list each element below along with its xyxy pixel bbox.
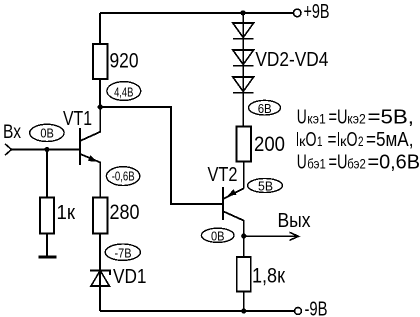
note Ik01=Ik02=5mA [296, 129, 414, 151]
svg-text:1,8к: 1,8к [252, 264, 285, 288]
svg-text:-9В: -9В [305, 299, 328, 317]
svg-text:280: 280 [110, 200, 140, 224]
wire output arrow [244, 235, 298, 237]
resistor R1 920 [93, 44, 108, 79]
value 1k [57, 201, 76, 224]
svg-text:-0,6В: -0,6В [112, 169, 135, 184]
svg-text:VD2-VD4: VD2-VD4 [255, 49, 328, 71]
value 1,8k [252, 264, 285, 288]
label +9V [304, 1, 330, 23]
label VD2-VD4 [255, 49, 328, 71]
svg-text:0В: 0В [40, 126, 54, 141]
label Vx input [3, 122, 21, 143]
svg-text:IкО1=IкО2=5мА,: IкО1=IкО2=5мА, [296, 129, 414, 151]
wire 200 to VT2 emitter [243, 162, 245, 189]
label -9V [305, 299, 328, 317]
resistor R4 200 [237, 127, 252, 162]
label VT2 [208, 164, 238, 186]
terminal -9V circle [295, 308, 302, 315]
svg-text:920: 920 [110, 48, 139, 72]
node label 4,4V ellipse [107, 82, 141, 101]
value 200 [254, 132, 285, 156]
label VT1 [63, 108, 92, 130]
svg-text:0В: 0В [211, 229, 225, 244]
wire base node down [46, 150, 48, 198]
node collector VT1 (4,4V) [98, 104, 103, 109]
wire VT1 base lead [12, 149, 80, 151]
ground [39, 256, 57, 259]
resistor R5 1.8k [237, 257, 251, 292]
wire 1k to ground [46, 234, 48, 257]
svg-text:Uкэ1=Uкэ2=5В,: Uкэ1=Uкэ2=5В, [297, 107, 414, 129]
wire node to VT2 base [100, 107, 222, 204]
node label -7V ellipse [105, 244, 140, 261]
label VD1 [113, 266, 147, 288]
wire 1.8k to rail [243, 292, 245, 312]
wire 280 to VD1 [99, 234, 101, 271]
svg-text:Вых: Вых [278, 210, 311, 232]
wire diode chain top [242, 13, 244, 127]
svg-text:-7В: -7В [115, 246, 132, 261]
transistor VT2 [223, 187, 244, 236]
node label 5V ellipse [248, 179, 283, 194]
svg-text:VT1: VT1 [63, 108, 92, 130]
node label 0V ellipse (collector VT2) [201, 228, 234, 243]
resistor R2 1k [40, 198, 54, 234]
svg-text:VD1: VD1 [113, 266, 147, 288]
svg-text:6В: 6В [258, 101, 272, 116]
terminal +9V circle [293, 9, 301, 17]
node label 6V ellipse [249, 100, 281, 115]
input arrow Vx [5, 144, 12, 155]
wire top rail +9V [100, 12, 293, 14]
svg-text:200: 200 [254, 132, 285, 156]
value 280 [110, 200, 140, 224]
svg-text:4,4В: 4,4В [114, 85, 133, 100]
node collector VT2 (0V) [241, 233, 246, 238]
node top junction [240, 10, 245, 15]
wire bottom rail -9V [100, 310, 294, 312]
node label -0,6V ellipse [106, 167, 139, 186]
note Uke1=Uke2=5V [297, 107, 414, 129]
svg-text:1к: 1к [57, 201, 76, 224]
node label 0V ellipse (base VT1) [30, 124, 64, 141]
svg-text:Uбэ1=Uбэ2=0,6В: Uбэ1=Uбэ2=0,6В [297, 152, 420, 174]
node bottom junction [241, 308, 246, 313]
diode VD3 [233, 50, 254, 66]
diode VD2 [233, 23, 254, 39]
svg-text:+9В: +9В [304, 1, 330, 23]
svg-text:5В: 5В [258, 179, 273, 194]
svg-text:Вх: Вх [3, 122, 21, 143]
label Vyh output [278, 210, 311, 232]
svg-text:VT2: VT2 [208, 164, 238, 186]
wire 920 top lead [99, 13, 101, 44]
zener diode VD1 [90, 271, 110, 312]
wire VT2 collector to 1.8k [243, 236, 245, 257]
wire VT1 emitter to 280 [99, 163, 101, 198]
wire 920 bottom lead [99, 79, 101, 107]
transistor VT1 [80, 107, 100, 198]
diode VD4 [233, 77, 254, 93]
resistor R3 280 [93, 198, 108, 234]
value 920 [110, 48, 139, 72]
output arrowhead [290, 232, 299, 240]
note Ube1=Ube2=0,6V [297, 152, 420, 174]
node base junction [44, 147, 49, 152]
